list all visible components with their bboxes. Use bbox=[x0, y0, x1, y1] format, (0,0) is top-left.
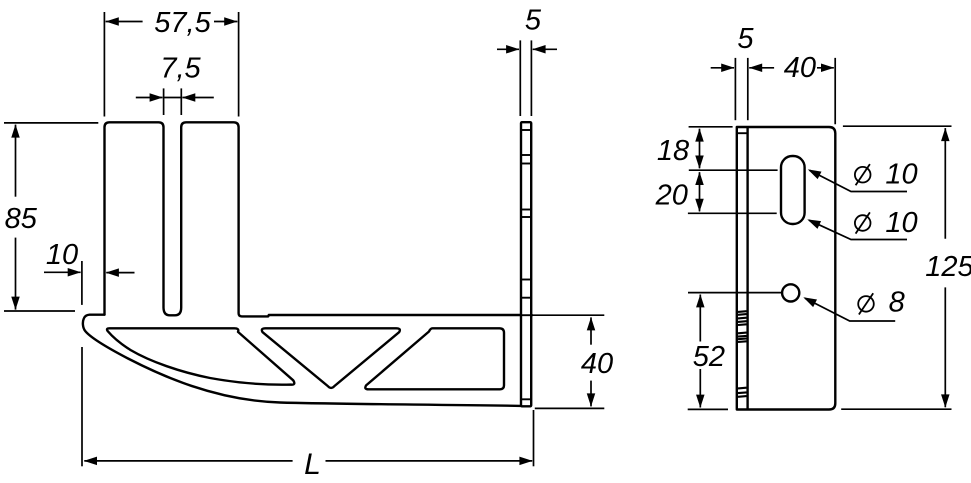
svg-text:57,5: 57,5 bbox=[154, 7, 211, 39]
svg-text:40: 40 bbox=[581, 348, 613, 380]
svg-text:8: 8 bbox=[889, 287, 905, 319]
svg-text:5: 5 bbox=[737, 23, 754, 55]
svg-text:40: 40 bbox=[784, 52, 816, 84]
svg-text:10: 10 bbox=[46, 239, 78, 271]
svg-text:10: 10 bbox=[885, 207, 917, 239]
svg-text:52: 52 bbox=[693, 341, 725, 373]
svg-text:125: 125 bbox=[925, 251, 971, 283]
svg-text:7,5: 7,5 bbox=[160, 53, 201, 85]
svg-text:L: L bbox=[304, 448, 321, 481]
svg-text:10: 10 bbox=[885, 159, 917, 191]
svg-text:85: 85 bbox=[5, 203, 38, 235]
svg-text:5: 5 bbox=[525, 5, 542, 37]
svg-text:18: 18 bbox=[657, 135, 689, 167]
svg-text:20: 20 bbox=[655, 180, 688, 212]
